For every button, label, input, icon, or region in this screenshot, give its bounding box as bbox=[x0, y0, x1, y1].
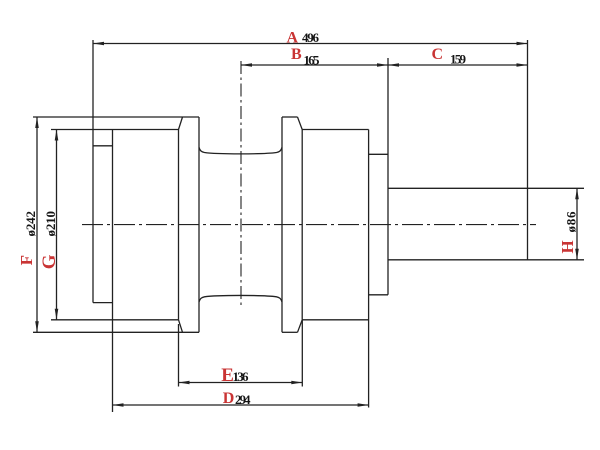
svg-text:165: 165 bbox=[304, 53, 321, 68]
svg-text:A: A bbox=[287, 29, 299, 46]
arrow H bottom bbox=[575, 249, 579, 260]
right rim top chamfer bbox=[298, 117, 303, 130]
step ring top edge bbox=[369, 153, 388, 155]
bottom-left notch horizontal bbox=[93, 302, 113, 304]
hub right face and D extension bbox=[368, 130, 370, 408]
dimension line D bbox=[113, 404, 369, 406]
left rim bottom chamfer bbox=[179, 320, 183, 333]
top-left notch horizontal bbox=[93, 145, 113, 147]
svg-text:159: 159 bbox=[450, 52, 467, 67]
tread waist top curve bbox=[199, 147, 282, 154]
arrow F top bbox=[35, 117, 39, 128]
arrow H top bbox=[575, 188, 579, 199]
arrow E left bbox=[179, 381, 190, 385]
dimension line H bbox=[576, 188, 578, 259]
arrow C left bbox=[388, 63, 399, 67]
svg-text:B: B bbox=[291, 46, 302, 63]
svg-text:ø210: ø210 bbox=[43, 211, 58, 237]
arrow G bottom bbox=[55, 309, 59, 320]
hub section top edge bbox=[302, 129, 368, 131]
hub section bottom edge bbox=[302, 319, 368, 321]
arrow C right bbox=[517, 63, 528, 67]
E left extension bbox=[178, 324, 180, 387]
right rim top edge bbox=[282, 116, 298, 118]
step ring bottom edge bbox=[369, 294, 388, 296]
right rim junction vertical bbox=[301, 130, 303, 320]
A left extension line bbox=[92, 40, 94, 130]
tread waist bottom curve bbox=[199, 295, 282, 302]
roller body left face bbox=[92, 130, 94, 303]
arrow A left bbox=[93, 42, 104, 46]
vertical tread centerline bbox=[240, 61, 242, 308]
dimension line E bbox=[179, 382, 303, 384]
rim bottom edge (with F extension) bbox=[33, 331, 199, 333]
dimension line G bbox=[56, 130, 58, 320]
svg-text:ø242: ø242 bbox=[23, 211, 38, 237]
arrow B left bbox=[241, 63, 252, 67]
notch vertical and D left extension bbox=[112, 130, 114, 413]
arrow A right bbox=[517, 42, 528, 46]
dimension line C bbox=[388, 64, 528, 66]
svg-text:C: C bbox=[432, 46, 444, 63]
svg-text:136: 136 bbox=[233, 369, 250, 384]
dimension line A bbox=[93, 43, 528, 45]
right rim bottom edge bbox=[282, 331, 298, 333]
dimension line B bbox=[241, 64, 388, 66]
svg-text:F: F bbox=[17, 255, 36, 265]
left rim junction vertical bbox=[178, 130, 180, 320]
shaft end face and A/C extension bbox=[527, 40, 529, 260]
arrow E right bbox=[291, 381, 302, 385]
roller body bottom edge (with G extension) bbox=[51, 319, 179, 321]
arrow B right bbox=[377, 63, 388, 67]
svg-text:ø86: ø86 bbox=[564, 211, 579, 233]
arrow F bottom bbox=[35, 321, 39, 332]
svg-text:G: G bbox=[39, 254, 60, 269]
arrow D left bbox=[113, 403, 124, 407]
svg-text:H: H bbox=[558, 240, 577, 253]
shaft top edge and H extension bbox=[388, 187, 584, 189]
horizontal centerline bbox=[82, 224, 536, 226]
roller body top edge (with G extension) bbox=[51, 129, 179, 131]
step ring right face and B/C extension bbox=[387, 58, 389, 295]
arrow G top bbox=[55, 130, 59, 141]
arrow D right bbox=[358, 403, 369, 407]
shaft bottom edge and H extension bbox=[388, 259, 584, 261]
E right extension bbox=[301, 320, 303, 387]
rim top edge (with F extension) bbox=[33, 116, 199, 118]
right rim bottom chamfer bbox=[298, 320, 303, 333]
svg-text:D: D bbox=[223, 390, 235, 407]
svg-text:496: 496 bbox=[302, 30, 320, 45]
left rim right edge bbox=[198, 117, 200, 332]
dimension line F bbox=[36, 117, 38, 332]
left rim top chamfer bbox=[179, 117, 183, 130]
svg-text:294: 294 bbox=[235, 392, 251, 407]
right rim left edge bbox=[281, 117, 283, 332]
